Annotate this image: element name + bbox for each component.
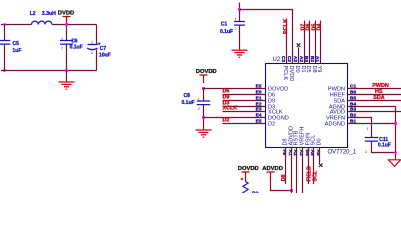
svg-text:R3: R3 <box>252 192 259 194</box>
svg-text:C5: C5 <box>13 41 20 47</box>
svg-text:SDA: SDA <box>373 95 384 101</box>
analog ground triangle <box>389 160 401 167</box>
capacitor C7 plus plate <box>88 44 98 46</box>
wire D0 stub bottom <box>319 148 321 164</box>
wire AVDD <box>348 111 401 113</box>
svg-text:ADGND: ADGND <box>325 122 345 128</box>
no-connect X bottom <box>319 163 323 167</box>
wire HREF <box>348 94 401 96</box>
svg-text:1: 1 <box>198 97 200 101</box>
node rail left bottom <box>3 69 6 72</box>
power DOVDD upper <box>200 75 208 83</box>
svg-text:DOVDD: DOVDD <box>196 69 217 75</box>
wire bottom rail <box>1 70 97 72</box>
capacitor C1 <box>234 22 245 26</box>
wire ADVDD pin bottom <box>291 148 293 194</box>
wire pin3 stub <box>298 48 300 64</box>
power DOVDD bottom <box>242 172 250 180</box>
capacitor C8 <box>197 101 211 105</box>
wire C1 to ground <box>239 25 241 50</box>
svg-text:1: 1 <box>91 41 93 45</box>
svg-text:0.1uF: 0.1uF <box>182 100 195 106</box>
wire DOVDD to R3 <box>245 180 247 182</box>
wire C8 to ground <box>203 105 205 130</box>
svg-text:2: 2 <box>91 51 93 55</box>
svg-text:A3: A3 <box>292 56 298 62</box>
svg-text:D2: D2 <box>268 122 275 128</box>
svg-text:2: 2 <box>61 46 63 50</box>
wire top rail <box>1 24 97 26</box>
capacitor C6 <box>60 41 73 45</box>
svg-text:2: 2 <box>198 107 200 111</box>
wire C11 to AGND rail <box>372 141 396 152</box>
node ADVDD junction <box>290 189 293 192</box>
capacitor C7 plus sign <box>98 42 101 45</box>
wire C6 branch <box>66 25 68 71</box>
wire C5 branch <box>4 25 6 71</box>
ground C1 <box>232 50 248 57</box>
IC U2 outline <box>266 64 348 148</box>
svg-text:DVDD: DVDD <box>58 11 74 17</box>
svg-text:PCLK: PCLK <box>282 66 288 81</box>
power DVDD <box>63 17 71 25</box>
wire FSIN bottom <box>308 148 310 185</box>
svg-text:C8: C8 <box>184 93 191 99</box>
node rail left top <box>3 23 6 26</box>
capacitor C11 <box>365 138 379 142</box>
svg-text:OV7720_1: OV7720_1 <box>328 150 357 156</box>
svg-text:SCL: SCL <box>312 170 318 181</box>
svg-text:L2: L2 <box>30 11 36 17</box>
svg-text:XCLK: XCLK <box>223 106 238 112</box>
wire ADVDD to pin <box>271 180 292 191</box>
wire DOVDD to C8 <box>203 89 205 102</box>
svg-text:D0: D0 <box>317 138 323 145</box>
node ADGND junction <box>394 122 397 125</box>
svg-text:C7: C7 <box>100 46 107 52</box>
wire D4 top net <box>320 21 322 64</box>
capacitor C5 <box>0 41 10 45</box>
svg-text:ADVDD: ADVDD <box>262 166 283 172</box>
svg-text:2: 2 <box>235 27 237 31</box>
node C1 junction <box>238 8 241 11</box>
ground left circuit <box>59 82 75 89</box>
wire D2 net <box>223 123 266 125</box>
svg-text:0.1uF: 0.1uF <box>70 44 83 50</box>
wire ground stem left <box>66 71 68 82</box>
svg-text:D0: D0 <box>294 66 300 73</box>
svg-text:PCLK: PCLK <box>283 19 289 34</box>
wire RSTB bottom <box>296 148 298 194</box>
wire PWDN <box>348 88 401 90</box>
no-connect X top <box>297 43 301 47</box>
svg-text:DOVDD: DOVDD <box>238 166 259 172</box>
node DOVDD junction <box>202 87 205 90</box>
wire SDA <box>348 100 401 102</box>
wire VREFH bottom <box>302 148 304 194</box>
wire D9 net <box>223 100 266 102</box>
svg-text:D2: D2 <box>223 118 230 124</box>
svg-text:1: 1 <box>235 17 237 21</box>
svg-text:0.1uF: 0.1uF <box>378 143 391 149</box>
svg-text:3.3uH: 3.3uH <box>42 11 56 17</box>
wire DVDD to U2 pin <box>240 10 293 64</box>
wire D7 top net <box>304 21 306 64</box>
wire D5 top net <box>315 21 317 64</box>
wire DOVDD to U2 <box>204 88 266 90</box>
svg-text:1: 1 <box>61 37 63 41</box>
wire VREFN <box>348 118 372 138</box>
R3 pin end circle <box>241 178 243 180</box>
power ADVDD <box>267 172 275 180</box>
wire PCLK <box>286 19 288 64</box>
svg-text:10uF: 10uF <box>99 53 111 59</box>
node bottom junction <box>65 69 68 72</box>
node DOGND junction <box>202 116 205 119</box>
wire D6 net <box>223 94 266 96</box>
wire C1 top <box>239 3 241 22</box>
wire ADGND <box>348 123 396 125</box>
resistor R3 <box>243 182 248 195</box>
svg-text:C1: C1 <box>221 21 228 27</box>
wire DOGND pin <box>204 117 266 119</box>
wire AGND <box>348 107 396 160</box>
svg-text:2: 2 <box>365 150 367 154</box>
inductor L2 <box>32 21 52 24</box>
wire D6 top net <box>309 21 311 64</box>
svg-text:Y9: Y9 <box>316 66 322 73</box>
svg-text:D5: D5 <box>305 66 311 73</box>
svg-text:DVDD: DVDD <box>288 66 294 82</box>
wire XCLK net <box>223 111 266 113</box>
wire SCL bottom <box>313 148 315 185</box>
ground C8 <box>196 130 212 137</box>
svg-text:U2: U2 <box>273 57 281 63</box>
svg-text:1: 1 <box>367 127 369 131</box>
node C11 junction <box>394 151 397 154</box>
svg-text:1uF: 1uF <box>13 48 22 54</box>
wire D8 bottom <box>285 148 287 185</box>
capacitor C7 curved plate <box>87 48 98 50</box>
svg-text:C3: C3 <box>280 56 286 62</box>
svg-text:0.1uF: 0.1uF <box>220 29 233 35</box>
node DVDD junction <box>65 23 68 26</box>
svg-text:D4: D4 <box>316 24 322 31</box>
svg-text:D8: D8 <box>281 174 287 181</box>
wire C7 branch <box>96 25 98 71</box>
wire D3 net <box>223 106 266 108</box>
